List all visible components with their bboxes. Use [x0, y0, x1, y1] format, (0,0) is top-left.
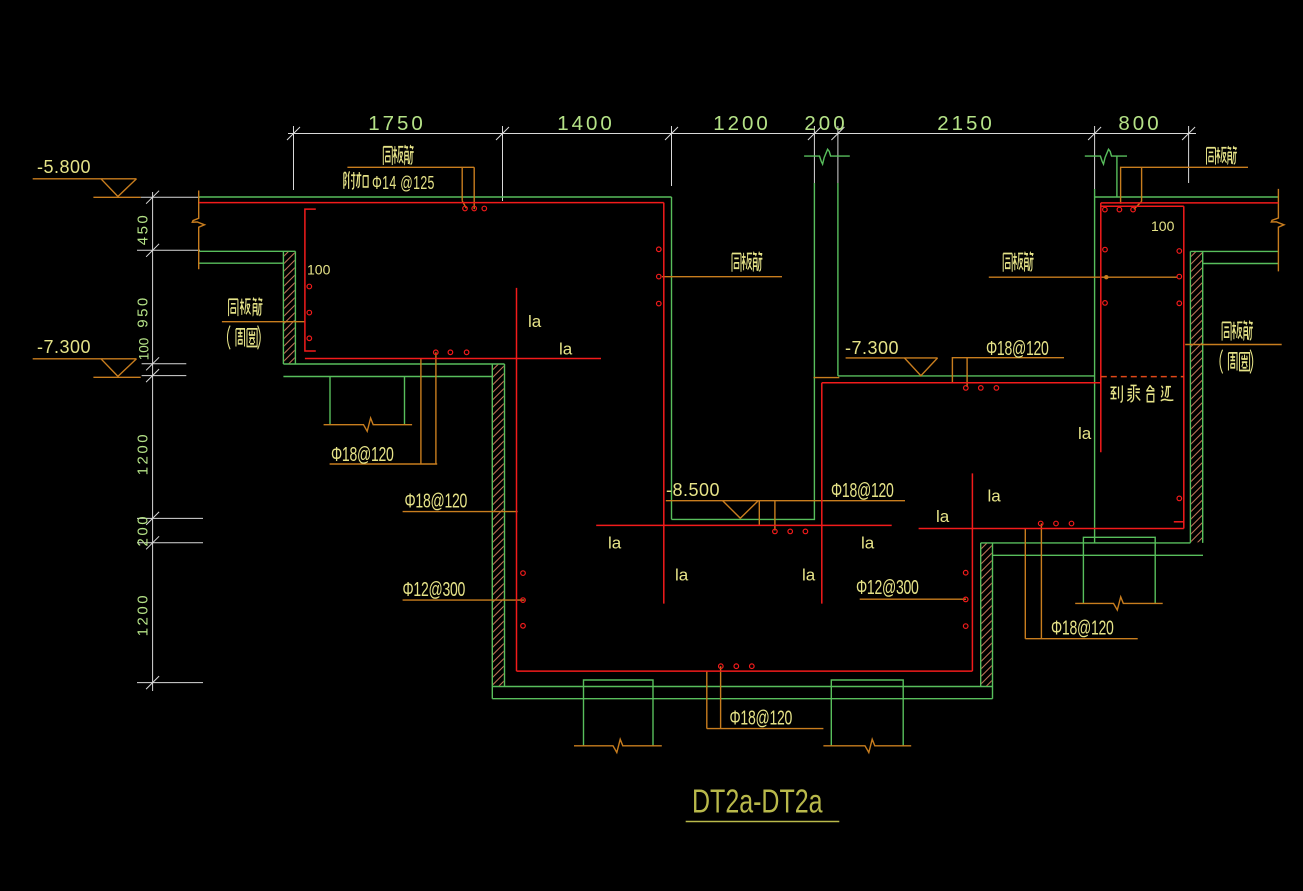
left floor top rebar [305, 358, 601, 360]
phi18 left floor label underline [330, 352, 438, 464]
bottom right wall outer face [980, 543, 982, 687]
left 100 wall outer face [282, 251, 284, 364]
right pit wall anchor leg [821, 383, 823, 604]
svg-text:100: 100 [307, 262, 331, 278]
top right label leader [1121, 167, 1248, 203]
elevation -5.800 triangle [101, 179, 137, 197]
bottom slab rebar right anchor leg [971, 473, 973, 671]
svg-text:la: la [559, 340, 573, 359]
tick marks left dimension [146, 191, 159, 689]
label fujia (added) [344, 171, 368, 189]
elevation -8.500 triangle [723, 501, 759, 519]
left slab cut edge with break [192, 191, 204, 270]
bottom slab rebar [517, 670, 973, 672]
left dimension line vertical [152, 192, 154, 691]
phi12 left label underline [403, 599, 525, 601]
svg-text:la: la [861, 534, 875, 553]
left dim stub y=250.3 [137, 249, 200, 251]
elevation -8.500 line [666, 500, 905, 502]
svg-text:Φ18@120: Φ18@120 [331, 442, 394, 465]
label tongbanjin top [383, 145, 413, 165]
pedestal C [831, 680, 903, 746]
right edge wall hatch right face [1202, 251, 1204, 543]
dots left wall bars [307, 284, 312, 289]
svg-text:-7.300: -7.300 [845, 338, 899, 358]
leader dot right middle [1104, 275, 1108, 279]
elevation -5.800 datum stub [93, 196, 140, 198]
deep pit left wall rebar [663, 203, 665, 604]
right wall upper stub face [1116, 156, 1118, 197]
step wall right face [504, 364, 506, 687]
break line on middle wall [804, 149, 850, 164]
pedestal A left floor [330, 377, 405, 425]
svg-text:1400: 1400 [557, 112, 615, 135]
dots right box left column [1103, 247, 1108, 252]
pedestal D [1083, 537, 1155, 603]
svg-text:Φ12@300: Φ12@300 [403, 577, 466, 600]
svg-text:1750: 1750 [368, 112, 426, 135]
pile cap lower line [993, 554, 1204, 556]
dots bottom right wall bars [963, 570, 968, 575]
deep pit anchorage extension [596, 524, 892, 526]
svg-text:Φ14 @125: Φ14 @125 [372, 174, 435, 194]
top dimension line [288, 133, 1196, 135]
top right label arrow slash [1134, 202, 1142, 210]
svg-text:1200: 1200 [713, 112, 771, 135]
left dim stub y=518.4 [137, 517, 203, 519]
middle 200 wall right face [837, 183, 839, 376]
bottom right phi18 label leaders [1025, 524, 1137, 639]
dots right pit bottom bars [1038, 521, 1043, 526]
dots right box right column [1177, 249, 1182, 254]
left floor lower line [283, 376, 492, 378]
right pit floor [838, 375, 1095, 377]
pedestal B [584, 680, 654, 746]
dots step wall bars [521, 571, 526, 576]
extension line x=814.4 [813, 126, 815, 183]
label zhouquan far right [1220, 350, 1253, 374]
hatch right edge wall [1191, 252, 1202, 542]
extension line x=293.5 [293, 126, 295, 190]
pile cap top [981, 542, 1191, 544]
svg-text:la: la [802, 566, 816, 585]
elevation -5.800 line [33, 178, 137, 180]
deep pit left wall face [671, 197, 673, 519]
svg-text:950: 950 [135, 295, 152, 328]
extension line x=671.5 [671, 126, 673, 186]
dots top right slab bars [1103, 207, 1108, 212]
dots top slab added bars [463, 206, 468, 211]
extension line x=502.5 [502, 126, 504, 201]
extension line x=1094.6 [1094, 126, 1096, 189]
svg-text:200: 200 [135, 514, 152, 547]
deep pit floor [672, 518, 816, 520]
elevation -7.300 left datum stub [93, 376, 140, 378]
left slab blinding line [199, 262, 284, 264]
dots left floor bars [434, 350, 439, 355]
elevation -7.300 right line [846, 357, 938, 359]
svg-text:-8.500: -8.500 [666, 480, 720, 500]
leader middle tongbanjin [662, 276, 782, 278]
dots bottom slab bars [719, 664, 724, 669]
label tongbanjin top right [1207, 146, 1237, 165]
bottom slab blinding line [492, 698, 992, 700]
elevation -7.300 left triangle [101, 359, 137, 377]
svg-text:Φ18@120: Φ18@120 [1051, 616, 1114, 639]
svg-text:la: la [1078, 424, 1092, 443]
floor orange piece between walls [814, 377, 840, 379]
elevation -7.300 left line [33, 358, 137, 360]
top slab rebar right [1101, 202, 1279, 204]
step wall left face [491, 364, 493, 699]
leader left tongbanjin [222, 321, 305, 323]
label tongbanjin far right [1222, 321, 1253, 341]
dots deep pit left wall bars [657, 247, 662, 252]
elevation -7.300 right triangle [904, 358, 937, 376]
hatch bottom right wall [981, 544, 991, 686]
top slab top surface left [199, 196, 672, 198]
left dim stub y=682.6 [137, 682, 203, 684]
left 100 wall inner face [294, 251, 296, 364]
leader right middle tongbanjin [989, 276, 1178, 278]
svg-text:1200: 1200 [135, 593, 152, 636]
left slab soffit [199, 250, 296, 252]
right box top rebar [1101, 205, 1184, 207]
svg-text:800: 800 [1118, 112, 1161, 135]
phi12 right label underline [860, 598, 966, 600]
dots deep pit floor bars [773, 529, 778, 534]
svg-text:200: 200 [804, 112, 847, 135]
title underline [686, 821, 840, 823]
label tongbanjin left [229, 298, 263, 317]
svg-text:450: 450 [135, 213, 152, 246]
right edge wall hatch left face [1189, 251, 1191, 543]
svg-text:100: 100 [1151, 218, 1175, 234]
middle 200 wall left face [813, 183, 815, 519]
phi18 deep pit leader drops [759, 501, 775, 531]
svg-text:1200: 1200 [135, 432, 152, 475]
svg-text:la: la [608, 534, 622, 553]
extension line x=837.9 [837, 126, 839, 183]
phi18 label right pit underline [952, 358, 1064, 387]
far right tongbanjin leader [1185, 344, 1282, 346]
left dim stub y=375.6 [142, 375, 187, 377]
right box bottom hook [1174, 521, 1184, 523]
svg-text:-5.800: -5.800 [37, 157, 91, 177]
right slab blinding line [1203, 263, 1279, 265]
left floor top line [283, 363, 504, 365]
extension line x=1188.6 [1188, 126, 1190, 183]
phi18 step wall label underline [403, 511, 518, 513]
left dim stub y=542.8 [137, 542, 203, 544]
bottom phi18 label leaders [707, 666, 824, 728]
pedestal C base line with break [823, 739, 911, 752]
label tongbanjin middle [732, 252, 762, 272]
svg-text:DT2a-DT2a: DT2a-DT2a [692, 784, 823, 820]
right pit bottom rebar [919, 528, 1184, 530]
right box left rebar [1100, 203, 1102, 452]
bottom slab soffit [492, 686, 992, 688]
tick marks top dimension [287, 127, 1195, 140]
left dim stub y=197.2 [141, 196, 200, 198]
hatch left 100 wall [284, 252, 295, 364]
svg-text:Φ18@120: Φ18@120 [730, 706, 793, 729]
bottom right wall inner face [992, 543, 994, 699]
svg-text:la: la [988, 487, 1002, 506]
break line on right wall [1085, 149, 1127, 164]
svg-text:Φ18@120: Φ18@120 [986, 336, 1049, 359]
top label leader box [347, 167, 474, 209]
top slab rebar left [199, 202, 664, 204]
label zhouquan left [227, 326, 260, 350]
top label arrow slash [462, 201, 466, 208]
step wall rebar [516, 288, 518, 671]
dots right pit floor bars [964, 386, 969, 391]
svg-text:100: 100 [137, 338, 152, 361]
label daochengtaibian [1110, 385, 1173, 402]
pedestal A base line with break [324, 418, 413, 431]
right pit floor rebar [822, 382, 1101, 384]
left wall vertical rebar with hooks [305, 209, 316, 351]
right slab soffit [1190, 250, 1278, 252]
svg-text:2150: 2150 [937, 112, 995, 135]
svg-text:Φ18@120: Φ18@120 [405, 489, 468, 512]
svg-text:Φ18@120: Φ18@120 [831, 478, 894, 501]
right pit step face [1094, 189, 1096, 543]
svg-text:la: la [936, 507, 950, 526]
svg-text:Φ12@300: Φ12@300 [856, 575, 919, 598]
svg-text:la: la [675, 566, 689, 585]
svg-text:la: la [528, 312, 542, 331]
right box right rebar [1183, 206, 1185, 528]
pedestal B base line with break [574, 739, 662, 752]
top slab top surface right [1095, 196, 1279, 198]
left dim stub y=363.8 [142, 363, 187, 365]
hatch step wall [493, 365, 504, 686]
label tongbanjin right middle [1003, 252, 1033, 272]
pedestal D base line with break [1075, 597, 1163, 610]
right slab cut edge with break [1271, 189, 1284, 272]
svg-text:-7.300: -7.300 [37, 337, 91, 357]
dashed line to pile cap edge [1101, 376, 1184, 378]
